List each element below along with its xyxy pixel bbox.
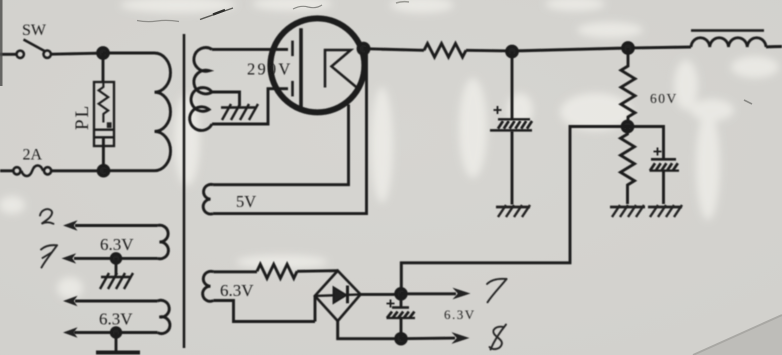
svg-text:6.3V: 6.3V — [444, 307, 476, 322]
svg-text:60V: 60V — [650, 91, 678, 106]
svg-text:5V: 5V — [236, 192, 256, 211]
svg-text:6.3V: 6.3V — [220, 281, 254, 300]
svg-text:290V: 290V — [247, 60, 292, 79]
svg-text:PL: PL — [72, 104, 93, 130]
svg-text:6.3V: 6.3V — [99, 310, 133, 329]
svg-text:6.3V: 6.3V — [100, 235, 134, 254]
svg-text:SW: SW — [22, 22, 47, 39]
svg-text:2A: 2A — [23, 147, 43, 164]
